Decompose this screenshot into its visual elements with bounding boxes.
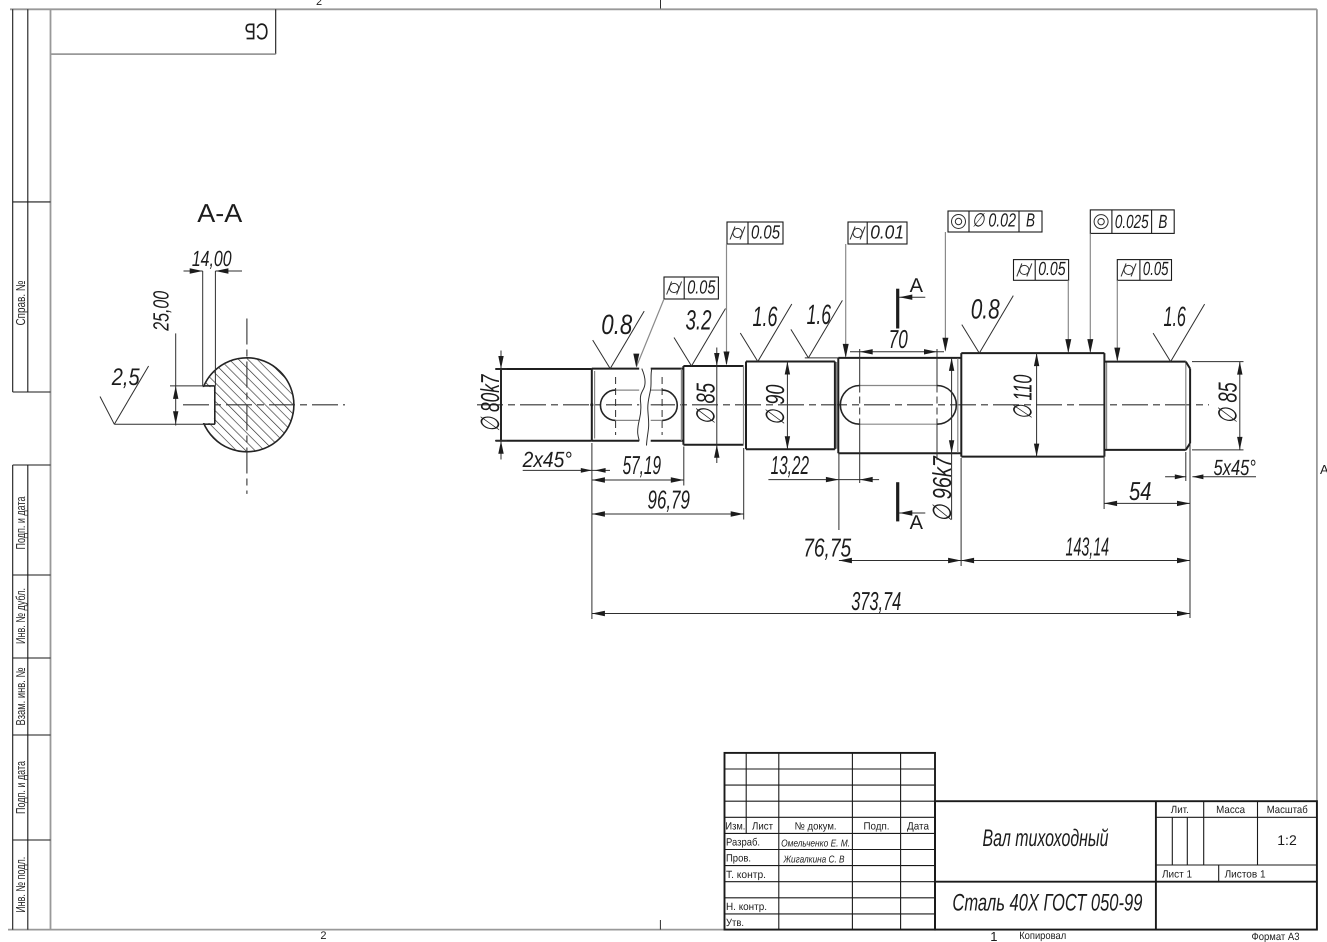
dimension dia 110 <box>1036 353 1038 457</box>
svg-text:Дата: Дата <box>907 821 929 833</box>
left margin column boxes <box>12 9 14 392</box>
svg-text:0.8: 0.8 <box>971 294 1000 325</box>
svg-text:∅ 80k7: ∅ 80k7 <box>475 374 505 432</box>
svg-text:Масса: Масса <box>1216 804 1245 816</box>
leader F1 <box>726 244 728 364</box>
roughness 1.6 over S7 <box>1153 333 1171 362</box>
shaft section S1 (dia 80k7) <box>500 369 502 441</box>
svg-text:∅ 85: ∅ 85 <box>1213 382 1243 424</box>
svg-text:14,00: 14,00 <box>192 246 232 271</box>
top designation box <box>275 9 277 54</box>
S2 keyway slot <box>600 390 615 420</box>
leader F6 <box>1116 280 1118 360</box>
svg-text:143,14: 143,14 <box>1066 532 1110 562</box>
roughness 0.8 over S6 <box>962 325 980 354</box>
svg-text:2: 2 <box>316 0 322 8</box>
dimension dia 96k7 <box>951 358 953 520</box>
svg-text:Изм.: Изм. <box>725 821 745 833</box>
svg-text:Инв. № дубл.: Инв. № дубл. <box>13 588 28 644</box>
svg-text:А: А <box>910 512 924 534</box>
svg-text:Лит.: Лит. <box>1171 804 1189 816</box>
shaft section S7 (dia 85 right) <box>1103 353 1105 457</box>
leader F5 <box>1067 280 1069 351</box>
svg-text:Подп. и дата: Подп. и дата <box>13 496 28 550</box>
svg-text:Инв. № подл.: Инв. № подл. <box>13 857 28 913</box>
svg-text:∅ 110: ∅ 110 <box>1008 374 1038 419</box>
svg-text:№ докум.: № докум. <box>795 821 837 833</box>
svg-text:Вал тихоходный: Вал тихоходный <box>983 825 1109 852</box>
shaft centerline <box>477 404 1209 406</box>
junction dot <box>590 403 593 406</box>
svg-text:Подп. и дата: Подп. и дата <box>13 760 28 814</box>
svg-text:1: 1 <box>990 929 997 942</box>
svg-text:Масштаб: Масштаб <box>1267 804 1308 816</box>
svg-text:Утв.: Утв. <box>726 917 744 929</box>
roughness 0.8 over S2 <box>593 340 611 369</box>
A-A horizontal centerline <box>183 404 345 406</box>
title block horizontal lines left part <box>725 768 936 770</box>
dimension dia 90 <box>786 362 788 450</box>
svg-text:Н. контр.: Н. контр. <box>726 901 767 913</box>
svg-text:Подп.: Подп. <box>864 821 890 833</box>
svg-text:А: А <box>1320 462 1327 477</box>
svg-text:76,75: 76,75 <box>803 533 851 563</box>
leader F2 <box>845 244 847 357</box>
svg-text:А-А: А-А <box>197 198 243 228</box>
tolerance frame F3 concentricity dia 0.02 B <box>948 211 1042 232</box>
section mark A bottom <box>896 482 899 521</box>
dimension dia 80k7 <box>500 351 502 460</box>
svg-text:2х45°: 2х45° <box>522 447 572 472</box>
tolerance frame F1 cylindricity 0.05 (dia85) <box>727 222 783 244</box>
dimension dia 85 (S7) <box>1239 362 1241 450</box>
svg-text:1.6: 1.6 <box>807 299 832 330</box>
S5 keyway slot <box>840 386 859 425</box>
svg-text:0.05: 0.05 <box>687 278 716 299</box>
svg-text:Лист 1: Лист 1 <box>1162 869 1192 881</box>
svg-text:1.6: 1.6 <box>753 301 778 332</box>
ext line x1190 <box>1189 445 1191 618</box>
svg-text:Лист: Лист <box>752 821 773 833</box>
roughness 3.2 over S3 <box>674 338 692 367</box>
break line 2 <box>647 369 652 446</box>
S7 end chamfer <box>1185 362 1187 450</box>
svg-text:25,00: 25,00 <box>149 290 174 331</box>
svg-text:3.2: 3.2 <box>686 305 712 336</box>
svg-text:Т. контр.: Т. контр. <box>726 869 766 881</box>
shaft section S3 (dia 85) <box>680 369 682 441</box>
A-A vertical centerline <box>246 319 248 494</box>
svg-text:Листов 1: Листов 1 <box>1225 869 1266 881</box>
svg-text:Формат А3: Формат А3 <box>1252 931 1300 942</box>
svg-text:Справ. №: Справ. № <box>13 280 28 325</box>
shaft section S5 (dia 96k7 keyway) <box>834 362 836 450</box>
tolerance frame F6 cylindricity 0.05 (dia85 S7) <box>1117 260 1171 281</box>
sheet outer frame <box>10 8 1317 10</box>
svg-text:Пров.: Пров. <box>726 853 751 865</box>
svg-text:1:2: 1:2 <box>1277 832 1297 848</box>
roughness 1.6 over S5 <box>791 329 809 358</box>
svg-text:∅ 96k7: ∅ 96k7 <box>927 455 957 522</box>
title block outer border <box>725 753 936 930</box>
tolerance frame F4 concentricity 0.025 B <box>1090 210 1174 234</box>
shaft section S6 (dia 110) <box>957 358 959 452</box>
svg-text:0.05: 0.05 <box>1143 259 1169 280</box>
svg-text:СБ: СБ <box>245 19 269 45</box>
leader F3 <box>944 232 946 350</box>
svg-text:В: В <box>1026 211 1035 232</box>
svg-text:0.8: 0.8 <box>601 309 632 340</box>
svg-text:∅ 90: ∅ 90 <box>760 384 790 425</box>
tolerance frame F5 cylindricity 0.05 (dia110) <box>1014 260 1069 281</box>
svg-text:373,74: 373,74 <box>851 586 901 616</box>
svg-text:А: А <box>910 275 924 297</box>
A-A keyway notch (white) <box>194 387 214 423</box>
A-A hatched circle <box>200 358 294 452</box>
ext lines through S5 slot <box>859 349 861 386</box>
S2 break band <box>639 367 651 444</box>
dimension dia 85 (S3) <box>716 348 718 464</box>
leader F4 <box>1089 233 1091 351</box>
section mark A top <box>896 289 899 329</box>
svg-text:0.025: 0.025 <box>1115 212 1149 233</box>
shaft section S2 (keyway journal) <box>591 369 593 441</box>
svg-text:0.05: 0.05 <box>1038 259 1066 280</box>
tolerance frame F2 cylindricity 0.01 (dia96k7) <box>848 222 907 244</box>
svg-text:5х45°: 5х45° <box>1214 455 1256 480</box>
svg-text:Разраб.: Разраб. <box>726 837 760 849</box>
svg-text:1.6: 1.6 <box>1163 301 1186 332</box>
svg-text:96,79: 96,79 <box>648 485 690 515</box>
title block right part lines <box>1156 816 1317 818</box>
tolerance frame F0 cylindricity 0.05 (keyway journal) <box>664 277 718 299</box>
top fold tick <box>660 0 662 9</box>
svg-text:В: В <box>1158 212 1167 233</box>
svg-text:Взам. инв. №: Взам. инв. № <box>13 667 28 725</box>
roughness 1.6 over S4 <box>740 333 758 362</box>
S5 roughness ext line <box>805 357 839 359</box>
svg-text:Жигалкина С. В: Жигалкина С. В <box>783 855 845 866</box>
svg-text:54: 54 <box>1129 476 1151 506</box>
svg-text:0.01: 0.01 <box>870 223 904 244</box>
S2 slot center marks <box>615 377 617 435</box>
svg-text:∅ 0.02: ∅ 0.02 <box>972 211 1016 232</box>
title block vertical lines left part <box>745 753 747 834</box>
leader F0 <box>637 299 665 367</box>
bottom fold tick <box>659 920 661 930</box>
svg-text:Омельченко Е. М.: Омельченко Е. М. <box>781 839 850 850</box>
svg-text:Копировал: Копировал <box>1019 930 1066 942</box>
shaft section S4 (dia 90) <box>743 366 745 445</box>
svg-text:∅ 85: ∅ 85 <box>691 383 721 425</box>
ext line x591.9 <box>591 443 593 619</box>
keyway notch outline <box>214 386 216 424</box>
break line 1 <box>638 369 645 441</box>
svg-text:2: 2 <box>320 930 326 942</box>
svg-text:57,19: 57,19 <box>623 450 661 480</box>
svg-text:Сталь 40Х ГОСТ 050-99: Сталь 40Х ГОСТ 050-99 <box>952 890 1142 917</box>
svg-text:0.05: 0.05 <box>751 223 780 244</box>
svg-text:13,22: 13,22 <box>771 450 810 480</box>
